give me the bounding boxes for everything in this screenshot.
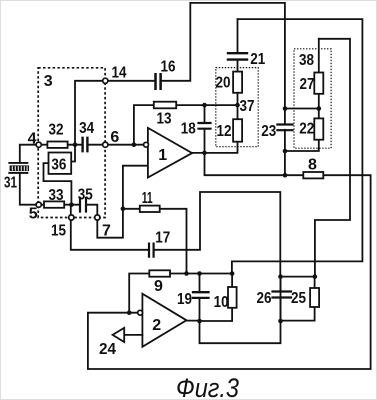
svg-text:Фиг.3: Фиг.3 (176, 373, 239, 400)
svg-text:34: 34 (79, 120, 94, 137)
svg-text:11: 11 (142, 190, 153, 207)
svg-text:35: 35 (78, 187, 93, 204)
svg-text:25: 25 (291, 290, 306, 307)
svg-text:33: 33 (49, 187, 64, 204)
svg-text:26: 26 (257, 290, 272, 307)
svg-text:22: 22 (299, 121, 314, 138)
svg-text:4: 4 (28, 131, 37, 148)
svg-text:38: 38 (299, 52, 314, 69)
svg-text:13: 13 (157, 111, 172, 128)
svg-text:16: 16 (161, 59, 176, 76)
svg-text:37: 37 (240, 98, 255, 115)
svg-text:18: 18 (181, 121, 196, 138)
svg-text:2: 2 (152, 317, 161, 334)
svg-text:17: 17 (155, 230, 170, 247)
svg-text:10: 10 (214, 294, 229, 311)
svg-text:31: 31 (4, 175, 17, 192)
svg-text:3: 3 (44, 73, 53, 90)
svg-text:5: 5 (29, 206, 38, 223)
svg-text:27: 27 (300, 76, 315, 93)
svg-text:8: 8 (308, 157, 317, 174)
svg-text:20: 20 (216, 75, 231, 92)
svg-text:6: 6 (110, 129, 119, 146)
svg-text:19: 19 (177, 291, 192, 308)
svg-text:9: 9 (154, 278, 163, 295)
svg-text:21: 21 (250, 51, 265, 68)
svg-text:15: 15 (51, 222, 66, 239)
svg-text:1: 1 (158, 147, 167, 164)
svg-text:14: 14 (112, 65, 127, 82)
svg-text:36: 36 (51, 157, 66, 174)
svg-text:12: 12 (217, 123, 232, 140)
svg-text:7: 7 (102, 222, 111, 239)
svg-text:24: 24 (99, 341, 116, 358)
svg-text:32: 32 (49, 122, 64, 139)
svg-text:23: 23 (261, 123, 276, 140)
